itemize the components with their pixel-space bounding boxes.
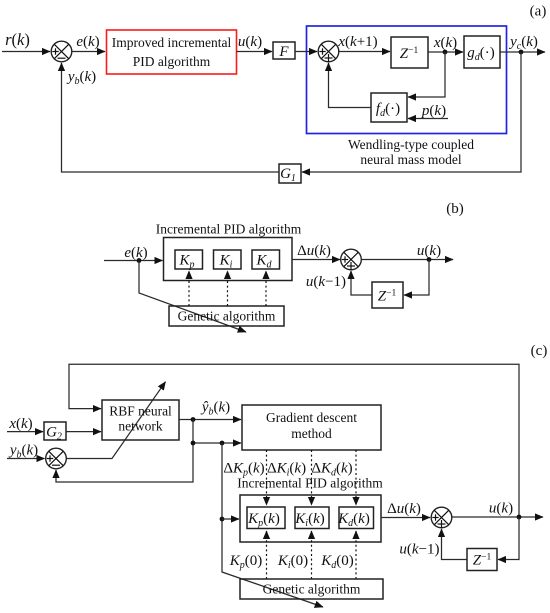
wire u(k) feedback into RBF (c) <box>69 364 519 517</box>
svg-text:Wendling-type coupled: Wendling-type coupled <box>348 137 474 152</box>
label Kp(0) (c) <box>229 553 263 571</box>
wire yc feedback to G1 <box>302 52 521 172</box>
dotted wire GA to Ki (b) <box>227 271 229 306</box>
wire G1 to S1 feedback <box>62 63 280 172</box>
block Z^-1 (c) <box>467 549 497 571</box>
svg-text:(b): (b) <box>446 201 464 217</box>
wire F to S2 <box>295 51 317 53</box>
wire u(k) to Z-1 (c) <box>498 517 519 560</box>
label delta-Kp(k) (c) <box>223 461 264 479</box>
wire Z-1 to gd <box>428 51 463 53</box>
label yb(k) (c) <box>8 443 38 461</box>
label Incremental PID algorithm (c) <box>237 476 383 491</box>
svg-text:Kd(k): Kd(k) <box>337 511 370 529</box>
node e(k) (b) <box>137 258 142 263</box>
wire RBF to gradient descent (c) <box>179 419 241 421</box>
summing junction S3 (b) <box>341 249 362 270</box>
svg-text:Gradient descent: Gradient descent <box>266 410 357 425</box>
label delta-Kd(k) (c) <box>311 461 352 479</box>
wire Z-1 to S3 (b) <box>351 271 372 295</box>
wire lower input to gradient descent (c) <box>193 442 241 444</box>
wire branch into PID outer (c) <box>222 518 239 520</box>
wire e(k) to genetic algorithm diagonal (b) <box>139 261 246 333</box>
label u(k-1) (c) <box>399 542 439 558</box>
dotted wire GA to Kd(k) (c) <box>355 531 357 579</box>
summing junction S5 (c) <box>431 507 452 528</box>
label (a) <box>530 4 547 20</box>
svg-text:gd(·): gd(·) <box>467 45 495 63</box>
wire S5 to output (c) <box>452 516 543 518</box>
label Wendling-type coupled neural mass model <box>348 137 474 167</box>
block Kp(k) (c) <box>247 507 285 529</box>
wire S4 diagonal through RBF (c) <box>67 382 166 459</box>
node yc <box>519 50 524 55</box>
wire S1 to PID block <box>72 51 105 53</box>
dotted wire gradient to Kd(k) (c) <box>355 450 357 505</box>
label (b) <box>446 201 464 217</box>
svg-text:neural mass model: neural mass model <box>360 152 461 167</box>
wire r(k) input <box>2 51 50 53</box>
dotted wire GA to Ki(k) (c) <box>311 531 313 579</box>
svg-text:Δu(k): Δu(k) <box>297 243 331 259</box>
block G1 <box>279 164 301 184</box>
wire e branch down to PID and GA (c) <box>222 443 323 607</box>
svg-text:Kp(k): Kp(k) <box>247 511 280 529</box>
label u(k) (c) <box>489 501 513 517</box>
svg-text:Kp(0): Kp(0) <box>229 553 263 571</box>
svg-text:x(k+1): x(k+1) <box>337 34 377 50</box>
label x(k+1) <box>337 34 377 50</box>
wire x(k) into G2 (c) <box>7 431 43 433</box>
block Kd (b) <box>252 250 280 271</box>
dotted wire GA to Kd (b) <box>265 271 267 306</box>
svg-text:u(k): u(k) <box>238 34 262 50</box>
svg-text:u(k−1): u(k−1) <box>399 542 439 558</box>
svg-text:Genetic algorithm: Genetic algorithm <box>178 309 276 324</box>
label yc(k) <box>508 34 538 52</box>
label p(k) <box>421 103 446 119</box>
wire x(k) branch to fd <box>408 52 445 97</box>
block Kd(k) (c) <box>337 507 373 529</box>
svg-text:(a): (a) <box>530 4 547 20</box>
svg-text:yb(k): yb(k) <box>8 443 38 461</box>
wire p(k) into fd <box>408 118 448 120</box>
svg-text:Ki(0): Ki(0) <box>277 553 308 571</box>
blue box: Wendling-type coupled neural mass model <box>307 26 507 134</box>
svg-text:u(k): u(k) <box>417 243 441 259</box>
label (c) <box>531 343 548 359</box>
wire yb-hat feedback to S4 (c) <box>56 420 193 483</box>
label Ki(0) (c) <box>277 553 308 571</box>
svg-text:Ki(k): Ki(k) <box>294 511 324 529</box>
node on yb-hat vertical (c) <box>191 441 196 446</box>
svg-text:network: network <box>118 419 162 434</box>
block Ki (b) <box>214 250 242 271</box>
svg-text:e(k): e(k) <box>76 34 99 50</box>
label u(k-1) (b) <box>306 274 346 290</box>
label x(k) <box>433 35 457 51</box>
svg-text:fd(·): fd(·) <box>376 101 400 119</box>
block RBF neural network (c) <box>102 400 179 440</box>
dotted wire GA to Kp(k) (c) <box>266 531 268 579</box>
wire PID outer to S5 (c) <box>381 517 430 519</box>
block Z^-1 (a) <box>391 37 428 68</box>
svg-text:ŷb(k): ŷb(k) <box>200 400 230 418</box>
wire yb(k) into S4 (c) <box>7 458 45 460</box>
svg-text:e(k): e(k) <box>124 245 147 261</box>
block gradient descent method (c) <box>242 405 381 450</box>
label delta-u(k) (b) <box>297 243 331 259</box>
svg-text:RBF neural: RBF neural <box>109 404 172 419</box>
wire e(k) input (b) <box>104 260 163 262</box>
wire Z-1 to S5 (c) <box>442 529 468 560</box>
wire S3 to output (b) <box>362 259 454 261</box>
svg-text:yc(k): yc(k) <box>508 34 538 52</box>
block genetic algorithm (c) <box>240 579 383 599</box>
label Incremental PID algorithm (b) <box>156 222 302 237</box>
svg-text:x(k): x(k) <box>433 35 457 51</box>
svg-text:x(k): x(k) <box>8 416 32 432</box>
block gd <box>464 36 500 68</box>
block Kp (b) <box>175 250 203 271</box>
block: Improved incremental PID algorithm <box>107 30 237 74</box>
svg-text:Genetic algorithm: Genetic algorithm <box>263 582 361 597</box>
dotted wire GA to Kp (b) <box>188 271 190 306</box>
svg-text:Kd(0): Kd(0) <box>320 553 354 571</box>
svg-text:p(k): p(k) <box>421 103 446 119</box>
node u(k) (b) <box>427 257 432 262</box>
svg-text:u(k−1): u(k−1) <box>306 274 346 290</box>
svg-text:PID algorithm: PID algorithm <box>133 54 211 69</box>
label r(k) <box>5 30 30 49</box>
svg-text:Incremental PID algorithm: Incremental PID algorithm <box>156 222 302 237</box>
block incremental PID outer (c) <box>240 495 381 542</box>
svg-text:Δu(k): Δu(k) <box>387 501 421 517</box>
node PID input branch (c) <box>220 517 225 522</box>
node x(k) <box>443 50 448 55</box>
wire PID outer to S3 (b) <box>292 259 340 261</box>
svg-text:Improved incremental: Improved incremental <box>112 35 232 50</box>
label yb-hat(k) (c) <box>200 400 230 418</box>
label e(k) <box>76 34 99 50</box>
dotted wire gradient to Kp(k) (c) <box>266 450 268 505</box>
wire S2 to Z-1 <box>339 51 390 53</box>
summing junction S2 <box>318 41 339 62</box>
label u(k) (b) <box>417 243 441 259</box>
svg-text:Incremental PID algorithm: Incremental PID algorithm <box>237 476 383 491</box>
label Kd(0) (c) <box>320 553 354 571</box>
dotted wire gradient to Ki(k) (c) <box>311 450 313 505</box>
svg-text:yb(k): yb(k) <box>66 69 96 87</box>
label yb(k) (a) <box>66 69 96 87</box>
label delta-Ki(k) (c) <box>267 461 306 479</box>
label u(k) <box>238 34 262 50</box>
svg-text:(c): (c) <box>531 343 548 359</box>
wire PID block to F <box>237 51 273 53</box>
block Z^-1 (b) <box>372 282 403 308</box>
block genetic algorithm (b) <box>169 306 284 326</box>
block fd <box>371 93 407 122</box>
label x(k) (c) <box>8 416 32 432</box>
block incremental PID outer (b) <box>164 238 293 281</box>
block Ki(k) (c) <box>294 507 329 529</box>
block F <box>273 42 295 60</box>
wire G2 to RBF (c) <box>66 431 101 433</box>
wire u(k) to Z-1 (b) <box>404 260 429 296</box>
svg-text:u(k): u(k) <box>489 501 513 517</box>
label delta-u(k) (c) <box>387 501 421 517</box>
block G2 (c) <box>44 422 66 443</box>
summing junction S4 (c) <box>46 448 67 469</box>
node e branch (c) <box>220 441 225 446</box>
svg-text:method: method <box>291 426 332 441</box>
svg-text:r(k): r(k) <box>5 30 30 49</box>
wire fd to S2 <box>329 63 372 108</box>
svg-text:F: F <box>278 44 289 60</box>
node u(k) (c) <box>517 515 522 520</box>
wire gd to output <box>500 51 545 53</box>
label e(k) (b) <box>124 245 147 261</box>
summing junction S1 <box>51 41 72 62</box>
node yb-hat (c) <box>191 417 196 422</box>
